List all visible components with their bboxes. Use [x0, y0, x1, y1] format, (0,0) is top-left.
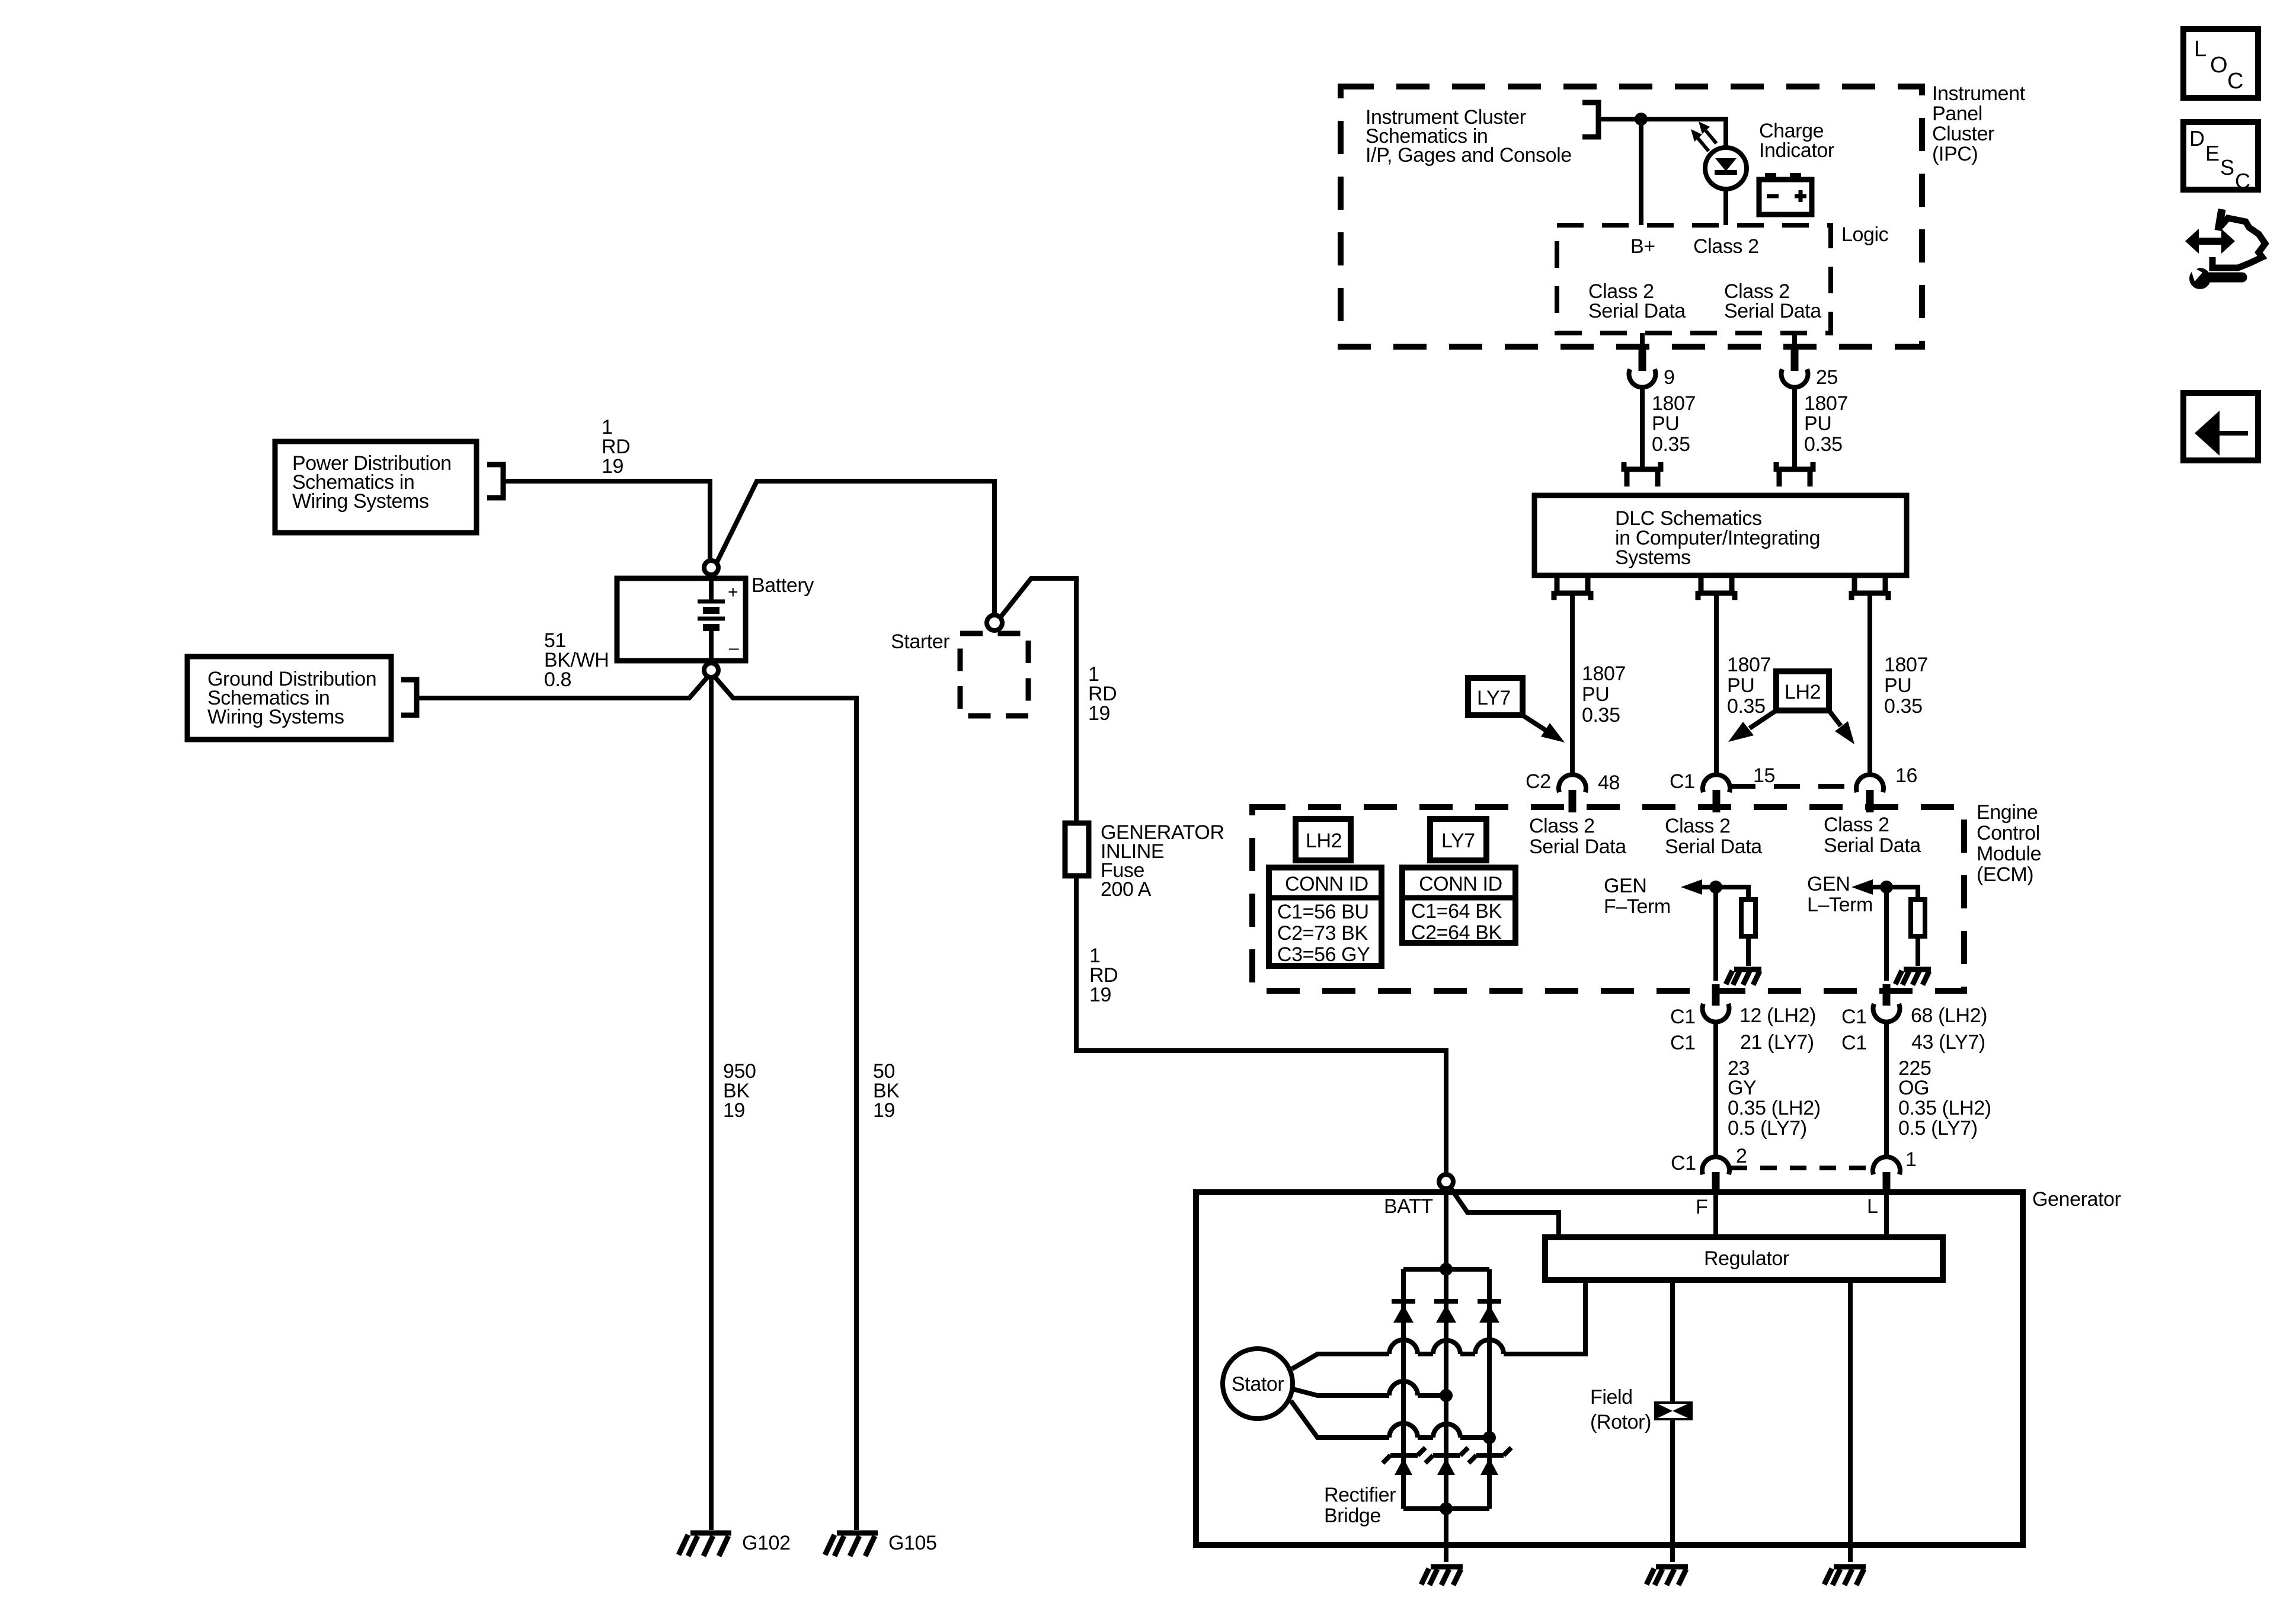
wire: L-term to generator pin 1: [1884, 1020, 1889, 1158]
F-term pull-up resistor R1: [1716, 887, 1755, 966]
wire: junction down to Logic B+: [1639, 119, 1643, 225]
stator circle: [1223, 1349, 1293, 1419]
svg-text:PU: PU: [1582, 683, 1609, 706]
svg-text:L: L: [2194, 37, 2207, 62]
svg-text:0.35 (LH2): 0.35 (LH2): [1898, 1097, 1991, 1119]
svg-text:19: 19: [1089, 984, 1111, 1006]
svg-text:Wiring Systems: Wiring Systems: [292, 490, 429, 513]
svg-text:Cluster: Cluster: [1932, 123, 1994, 145]
BATT terminal circle: [1439, 1174, 1453, 1189]
svg-text:48: 48: [1598, 772, 1620, 794]
regulator box: [1545, 1237, 1943, 1280]
diode D1: [1392, 1301, 1415, 1323]
ground at L-term resistor: [1895, 969, 1931, 985]
svg-text:19: 19: [1088, 702, 1110, 725]
labels: C1 C1 (L): [1841, 1006, 1867, 1054]
svg-text:PU: PU: [1727, 674, 1754, 697]
svg-text:0.5 (LY7): 0.5 (LY7): [1898, 1117, 1978, 1140]
wire: L-term output through ECM connector: [1884, 887, 1889, 981]
DLC bottom plug bracket 1: [1554, 576, 1591, 600]
CONN ID table LH2: [1269, 868, 1382, 966]
svg-text:C1=64 BK: C1=64 BK: [1411, 900, 1502, 923]
icon box: back arrow: [2183, 393, 2258, 460]
svg-text:Wiring Systems: Wiring Systems: [207, 706, 344, 728]
svg-text:25: 25: [1816, 366, 1838, 389]
svg-text:0.35: 0.35: [1652, 433, 1690, 456]
wire: field to ground: [1670, 1420, 1675, 1562]
svg-text:1807: 1807: [1804, 392, 1848, 415]
svg-text:L–Term: L–Term: [1807, 894, 1873, 916]
DLC receptacle bracket right: [1776, 462, 1813, 486]
ground at F-term resistor: [1726, 969, 1761, 985]
label: Field (Rotor): [1590, 1386, 1651, 1433]
junction node F-term: [1709, 881, 1722, 894]
label: 1 RD 19 (fuse output): [1089, 945, 1118, 1006]
label: 51 BK/WH 0.8: [544, 629, 609, 691]
svg-text:S: S: [2220, 155, 2234, 180]
wire: 1 RD 19 power feed to battery: [505, 481, 710, 561]
svg-text:O: O: [2210, 53, 2227, 78]
stator phase 3 wire: [1291, 1401, 1496, 1444]
svg-text:19: 19: [723, 1099, 745, 1122]
svg-text:Stator: Stator: [1232, 1373, 1284, 1395]
ground below regulator: [1824, 1567, 1866, 1585]
reference box: Power Distribution Schematics in Wiring Systems: [275, 441, 477, 533]
generator pin 2 connector: [1702, 1157, 1729, 1195]
ground G102: [679, 1533, 731, 1556]
battery negative terminal circle: [704, 663, 718, 677]
wire: logic pin 25 lead: [1792, 333, 1797, 351]
svg-text:GEN: GEN: [1604, 875, 1646, 897]
svg-text:CONN ID: CONN ID: [1419, 873, 1502, 895]
svg-text:1807: 1807: [1727, 654, 1771, 676]
svg-text:C1: C1: [1841, 1032, 1867, 1054]
svg-text:(ECM): (ECM): [1977, 863, 2033, 886]
wire: regulator right leg to ground: [1848, 1280, 1853, 1562]
svg-text:Class 2: Class 2: [1693, 235, 1759, 258]
svg-text:0.35: 0.35: [1804, 433, 1843, 456]
label: Rectifier Bridge: [1324, 1484, 1396, 1527]
svg-text:43 (LY7): 43 (LY7): [1911, 1031, 1985, 1054]
wire: L terminal to regulator: [1884, 1192, 1889, 1237]
tag box LH2 (ECM): [1296, 819, 1351, 860]
svg-text:Class 2: Class 2: [1665, 815, 1731, 837]
svg-text:G105: G105: [888, 1532, 937, 1554]
svg-text:PU: PU: [1804, 412, 1831, 435]
labels: C1 C1 (F): [1670, 1006, 1696, 1054]
stator phase 2 wire: [1293, 1381, 1453, 1402]
reference box: Ground Distribution Schematics in Wiring Systems: [187, 657, 391, 740]
logic dashed box: [1557, 225, 1831, 333]
svg-text:16: 16: [1895, 764, 1917, 787]
svg-text:0.8: 0.8: [544, 668, 571, 691]
svg-text:Field: Field: [1590, 1386, 1633, 1409]
svg-text:12 (LH2): 12 (LH2): [1739, 1004, 1816, 1027]
svg-text:E: E: [2205, 141, 2220, 165]
svg-text:19: 19: [873, 1099, 895, 1122]
label: GEN L-Term: [1807, 873, 1873, 916]
stator phase 1 wire with humps: [1292, 1280, 1585, 1369]
svg-text:LH2: LH2: [1785, 681, 1821, 703]
svg-text:F–Term: F–Term: [1604, 895, 1671, 918]
svg-text:C: C: [2227, 69, 2243, 94]
connector bracket at power distribution box: [487, 465, 503, 498]
svg-text:G102: G102: [742, 1532, 791, 1554]
junction node bottom rail: [1440, 1502, 1453, 1515]
svg-text:C1: C1: [1670, 1032, 1696, 1054]
svg-text:GY: GY: [1728, 1077, 1756, 1099]
label: 1807 PU 0.35 (wire 48): [1582, 662, 1626, 726]
wire: LED to Logic Class 2: [1723, 189, 1728, 225]
wire: battery negative to G105 branch: [714, 676, 856, 1530]
wire: connector 9 to DLC: [1640, 385, 1645, 467]
svg-text:B+: B+: [1630, 235, 1655, 258]
ground below field: [1646, 1567, 1688, 1585]
svg-text:Indicator: Indicator: [1759, 139, 1834, 162]
wire: F-term to generator pin 2: [1713, 1020, 1718, 1158]
svg-text:F: F: [1696, 1196, 1707, 1218]
label: Class 2 Serial Data (ECM pin 16): [1824, 814, 1921, 857]
label: Engine Control Module (ECM): [1977, 801, 2041, 886]
svg-text:LH2: LH2: [1306, 830, 1342, 852]
wire: battery negative to G102 (950 BK 19): [709, 677, 714, 1530]
label: 50 BK 19: [873, 1060, 900, 1122]
generator pin 1 connector: [1873, 1157, 1900, 1195]
label: 1807 PU 0.35 (IPC right): [1804, 392, 1848, 456]
svg-text:C3=56 GY: C3=56 GY: [1277, 943, 1370, 966]
junction node L-term: [1880, 881, 1893, 894]
in-line connector pin 9: [1629, 350, 1656, 388]
DLC receptacle bracket left: [1624, 462, 1661, 486]
svg-text:Instrument: Instrument: [1932, 82, 2026, 105]
wire: DLC to ECM pin 15: [1714, 596, 1719, 776]
svg-text:C2=64 BK: C2=64 BK: [1411, 921, 1502, 944]
svg-text:21 (LY7): 21 (LY7): [1740, 1031, 1814, 1054]
svg-text:L: L: [1867, 1195, 1878, 1218]
labels: 68 (LH2) 43 (LY7): [1911, 1004, 1987, 1054]
svg-text:GEN: GEN: [1807, 873, 1850, 895]
wire: F terminal to regulator: [1713, 1192, 1718, 1237]
wire: DLC to ECM pin 48: [1570, 596, 1575, 776]
svg-text:Regulator: Regulator: [1704, 1247, 1789, 1270]
wire: B+ feed with junction: [1601, 119, 1726, 148]
callout box LH2 with two arrows: [1728, 671, 1854, 744]
svg-text:+: +: [728, 582, 738, 602]
in-line connector pin 25: [1782, 350, 1808, 388]
ECM pin connector C1 16: [1856, 774, 1884, 812]
wire: connector 25 to DLC: [1792, 385, 1797, 467]
svg-text:C1: C1: [1671, 1152, 1696, 1174]
dashed wire pin 2 to pin 1: [1731, 1166, 1873, 1170]
svg-text:1807: 1807: [1582, 662, 1626, 685]
svg-text:(Rotor): (Rotor): [1590, 1411, 1651, 1433]
generator box: [1196, 1192, 2023, 1545]
avalanche diode D6: [1469, 1448, 1511, 1475]
svg-text:C1: C1: [1670, 1006, 1696, 1028]
svg-text:Rectifier: Rectifier: [1324, 1484, 1396, 1506]
svg-text:Serial Data: Serial Data: [1724, 300, 1821, 322]
svg-text:BATT: BATT: [1384, 1195, 1433, 1218]
GEN L-Term arrow: [1851, 879, 1886, 895]
battery icon inside IPC: [1759, 173, 1812, 215]
svg-text:9: 9: [1664, 366, 1675, 389]
starter junction terminal circle: [987, 615, 1002, 630]
field rotor winding symbol: [1654, 1401, 1693, 1420]
label: 1807 PU 0.35 (wire 15): [1727, 654, 1771, 718]
svg-text:0.35: 0.35: [1727, 695, 1766, 718]
in-line connector C1 12/21: [1703, 984, 1729, 1022]
labels: 12 (LH2) 21 (LY7): [1739, 1004, 1816, 1054]
svg-text:I/P, Gages and Console: I/P, Gages and Console: [1366, 144, 1572, 167]
tag box LY7 (ECM): [1430, 819, 1486, 860]
svg-text:C2: C2: [1526, 770, 1551, 793]
svg-text:0.35: 0.35: [1884, 695, 1923, 718]
svg-text:LY7: LY7: [1477, 687, 1511, 709]
svg-text:D: D: [2189, 126, 2205, 151]
label: Class 2 Serial Data (logic right): [1724, 280, 1821, 322]
svg-text:Battery: Battery: [752, 574, 814, 597]
L-term pull-up resistor R2: [1886, 887, 1925, 966]
svg-text:200 A: 200 A: [1101, 878, 1152, 901]
label: 1807 PU 0.35 (wire 16): [1884, 654, 1928, 718]
ECM pin connector C1 15: [1703, 774, 1730, 812]
svg-text:Starter: Starter: [891, 630, 949, 653]
ECM pin connector C2 48: [1559, 774, 1586, 812]
rectifier column 3: [1487, 1269, 1492, 1509]
label: GENERATOR INLINE Fuse 200 A: [1101, 821, 1224, 901]
label: 23 GY 0.35 (LH2) 0.5 (LY7): [1728, 1057, 1821, 1140]
DLC bottom plug bracket 3: [1851, 576, 1888, 600]
wire: regulator to field: [1670, 1280, 1675, 1401]
in-line connector C1 68/43: [1873, 984, 1900, 1022]
svg-text:1807: 1807: [1652, 392, 1696, 415]
svg-text:0.35 (LH2): 0.35 (LH2): [1728, 1097, 1821, 1119]
wire: bottom rail to ground: [1444, 1509, 1448, 1562]
svg-text:Serial Data: Serial Data: [1824, 834, 1921, 857]
icon: vehicle with wrench: [2185, 209, 2265, 289]
wire: starter junction to generator fuse branch: [1000, 578, 1076, 823]
module box: Instrument Panel Cluster (IPC) dashed outline: [1341, 87, 1922, 347]
label: 950 BK 19: [723, 1060, 756, 1122]
svg-text:PU: PU: [1652, 412, 1679, 435]
svg-text:–: –: [729, 638, 739, 658]
svg-text:15: 15: [1753, 764, 1775, 787]
module box: Engine Control Module (ECM) dashed outline: [1252, 807, 1964, 991]
svg-text:C: C: [2235, 169, 2250, 193]
battery B1: [617, 575, 746, 663]
svg-text:0.35: 0.35: [1582, 704, 1620, 726]
icon box: DESC: [2183, 122, 2258, 193]
ground G105: [825, 1533, 878, 1556]
wire: battery positive to starter junction: [717, 481, 994, 615]
svg-text:Control: Control: [1977, 822, 2040, 844]
label: Instrument Panel Cluster (IPC): [1932, 82, 2026, 165]
svg-text:Generator: Generator: [2032, 1188, 2121, 1211]
connector bracket inside IPC: [1582, 103, 1598, 137]
dashed wire pin 15 to pin 16: [1729, 784, 1857, 789]
svg-text:Serial Data: Serial Data: [1665, 836, 1762, 858]
svg-text:LY7: LY7: [1441, 830, 1475, 852]
LED charge indicator lamp: [1691, 121, 1747, 189]
wire: BATT to regulator: [1450, 1188, 1559, 1237]
svg-text:C1: C1: [1670, 770, 1695, 793]
icon box: LOC: [2183, 29, 2258, 98]
rectifier bottom rail: [1403, 1506, 1489, 1511]
wire: 51 BK/WH 0.8 ground lead: [418, 676, 709, 698]
svg-text:Logic: Logic: [1841, 223, 1889, 246]
svg-text:Serial Data: Serial Data: [1588, 300, 1686, 322]
svg-text:Engine: Engine: [1977, 801, 2038, 824]
DLC bottom plug bracket 2: [1698, 576, 1735, 600]
svg-text:1: 1: [1905, 1148, 1917, 1171]
GEN F-Term arrow: [1681, 879, 1716, 895]
svg-text:C1=56 BU: C1=56 BU: [1277, 901, 1369, 923]
wire: BATT vertical into rectifier: [1444, 1188, 1448, 1509]
label: 1 RD 19 (starter branch): [1088, 663, 1117, 725]
CONN ID table LY7: [1402, 868, 1515, 944]
rectifier top rail: [1403, 1267, 1489, 1272]
label: Charge Indicator: [1759, 120, 1834, 162]
label: 1 RD 19 (power feed): [602, 416, 630, 478]
label: 225 OG 0.35 (LH2) 0.5 (LY7): [1898, 1057, 1991, 1140]
wire: DLC to ECM pin 16: [1868, 596, 1872, 776]
reference label: Instrument Cluster Schematics in I/P, Gages and Console: [1366, 106, 1572, 167]
avalanche diode D5: [1425, 1448, 1468, 1475]
wire: logic pin 9 lead: [1640, 333, 1645, 351]
svg-text:Panel: Panel: [1932, 103, 1982, 125]
callout box LY7 with arrow: [1468, 678, 1565, 742]
ground below rectifier: [1421, 1567, 1463, 1585]
junction node top rail: [1440, 1263, 1453, 1276]
connector bracket at ground distribution box: [401, 680, 417, 715]
svg-text:Module: Module: [1977, 843, 2041, 865]
junction node at B+ branch: [1635, 113, 1648, 126]
svg-text:C2=73 BK: C2=73 BK: [1277, 922, 1368, 945]
diode D3: [1478, 1301, 1501, 1323]
label: Class 2 Serial Data (logic left): [1588, 280, 1686, 322]
label: Class 2 Serial Data (ECM pin 15): [1665, 815, 1762, 858]
svg-text:CONN ID: CONN ID: [1285, 873, 1368, 895]
svg-text:C1: C1: [1841, 1006, 1867, 1028]
svg-text:0.5 (LY7): 0.5 (LY7): [1728, 1117, 1807, 1140]
svg-text:Serial Data: Serial Data: [1529, 836, 1626, 858]
svg-text:68 (LH2): 68 (LH2): [1911, 1004, 1987, 1027]
svg-text:(IPC): (IPC): [1932, 143, 1978, 165]
svg-text:Bridge: Bridge: [1324, 1505, 1381, 1527]
reference box: DLC Schematics in Computer/Integrating Systems: [1534, 495, 1907, 575]
svg-text:Systems: Systems: [1615, 546, 1691, 569]
label: Class 2 Serial Data (ECM pin 48): [1529, 815, 1626, 858]
svg-text:Class 2: Class 2: [1824, 814, 1889, 836]
diode D2: [1434, 1301, 1458, 1323]
starter dashed box: [960, 633, 1028, 716]
label: 1807 PU 0.35 (IPC left): [1652, 392, 1696, 456]
rectifier column 1: [1401, 1269, 1406, 1509]
avalanche diode D4: [1383, 1448, 1425, 1475]
svg-text:PU: PU: [1884, 674, 1911, 697]
svg-text:OG: OG: [1898, 1077, 1929, 1099]
svg-text:Class 2: Class 2: [1529, 815, 1595, 837]
svg-text:2: 2: [1736, 1145, 1747, 1167]
label: GEN F-Term: [1604, 875, 1671, 918]
wire: fuse to generator BATT terminal (1 RD 19): [1076, 876, 1446, 1174]
fuse: GENERATOR INLINE Fuse 200 A: [1065, 823, 1089, 876]
battery positive terminal circle: [704, 561, 718, 575]
svg-text:1807: 1807: [1884, 654, 1928, 676]
svg-text:19: 19: [602, 455, 623, 478]
wire: F-term output through ECM connector: [1713, 887, 1718, 981]
